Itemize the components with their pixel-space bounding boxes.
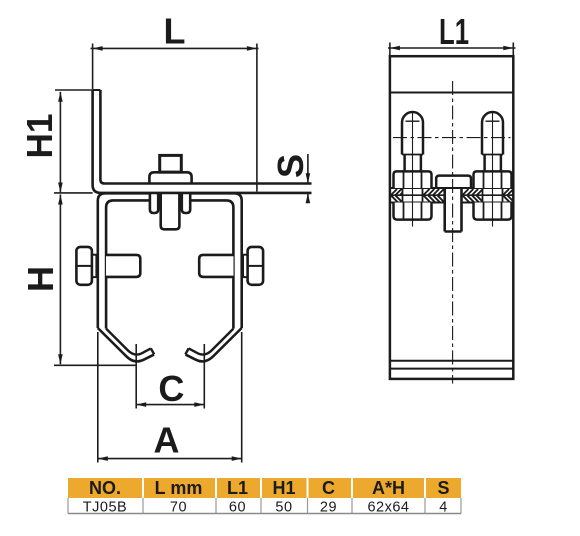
right upper nut [474, 171, 512, 188]
dimension L1 right extension [512, 43, 514, 56]
track bar top line [390, 187, 513, 189]
L-bracket plate top line [100, 90, 311, 184]
horizontal centerline through studs [393, 137, 511, 139]
left upper nut facets [404, 172, 422, 188]
dimension L1 left extension [389, 43, 391, 56]
svg-text:S: S [270, 154, 311, 178]
hatch segment between center shaft and right bolt [463, 189, 483, 203]
bolt hole edges in bar [403, 188, 503, 203]
svg-text:H: H [20, 266, 61, 292]
left slot rectangle [106, 255, 140, 277]
top bolt lower left ear [150, 193, 158, 213]
center bolt (side view) [436, 176, 471, 232]
right stud narrow section [485, 155, 501, 172]
right stud (side view) [474, 112, 512, 220]
bracket right hook tip cap [185, 348, 188, 354]
dimension C line [136, 404, 204, 406]
side view body rectangle [390, 56, 513, 379]
right bolt centerline [492, 112, 494, 227]
side view lower horizontal line 2 [390, 368, 513, 370]
left stud step line [402, 154, 423, 156]
dimension C left extension [135, 344, 137, 409]
right stud dome and sides [482, 112, 503, 155]
svg-text:L: L [164, 11, 186, 52]
center bolt shaft interior mask [446, 189, 461, 231]
svg-text:TJ05B: TJ05B [83, 500, 127, 516]
table data text [83, 500, 448, 516]
table header dividers [143, 478, 425, 498]
bracket right hook inner [189, 329, 234, 355]
left side bolt head mid line [76, 265, 92, 267]
right bolt hole edges [483, 188, 503, 203]
svg-text:L mm: L mm [155, 478, 203, 498]
track bar mid line [390, 194, 513, 196]
dimension S upper line [307, 154, 309, 183]
dimension L1 [388, 43, 516, 56]
right side bolt head mid line [248, 265, 264, 267]
left side bolt washer [92, 255, 97, 277]
track bar bottom line [390, 202, 513, 204]
left lower nut facets [404, 203, 422, 220]
right slot rectangle [199, 255, 233, 277]
dimension A line [98, 458, 242, 460]
arrow L1 right [503, 46, 513, 51]
dimension H1 bottom extension (plate bottom extended) [54, 192, 93, 194]
right lower nut facets [484, 203, 502, 220]
arrow S up [306, 193, 311, 203]
flange top cap [93, 89, 101, 91]
top bolt square head [160, 155, 182, 172]
top bolt lower shaft [161, 193, 180, 229]
side view lower horizontal line 1 [390, 360, 513, 362]
dimension L line [91, 47, 259, 49]
dimension C right extension [203, 344, 205, 409]
arrow H1 down [58, 183, 63, 193]
dimension H1 top extension [55, 89, 93, 91]
arrow L1 left [390, 46, 400, 51]
dimension L1 line [388, 47, 516, 49]
arrow H up [58, 195, 63, 205]
bracket left hook outer [98, 328, 154, 361]
right stud step line [482, 154, 503, 156]
bracket inner profile [106, 200, 233, 328]
left stud (side view) [394, 112, 432, 220]
svg-text:L1: L1 [439, 11, 469, 52]
bracket left hook tip cap [151, 348, 154, 354]
dimension H1 line [59, 92, 61, 193]
left lower nut [394, 203, 432, 220]
svg-text:29: 29 [320, 500, 337, 516]
top bolt lower right ear [182, 193, 190, 213]
svg-text:4: 4 [439, 500, 448, 516]
arrow A left [98, 456, 108, 461]
svg-text:62x64: 62x64 [367, 500, 409, 516]
hatch segment left of left bolt [391, 189, 403, 203]
dimension H bottom extension [54, 364, 137, 366]
dimension A right extension [241, 332, 243, 463]
dimension S lower line [307, 193, 309, 202]
svg-text:C: C [158, 368, 184, 409]
dimension A left extension [97, 332, 99, 463]
dimension H line [59, 195, 61, 365]
arrow H1 up [58, 92, 63, 102]
dimension L right extension [256, 44, 258, 192]
arrow L left [93, 46, 103, 51]
hatch segment between left bolt and center shaft [424, 189, 445, 203]
left stud cross tick [406, 120, 420, 122]
left side bolt head [76, 247, 92, 285]
center bolt head bottom line [436, 187, 471, 189]
svg-text:L1: L1 [227, 478, 248, 498]
arrow C right [194, 402, 204, 407]
arrow C left [136, 402, 146, 407]
right side bolt head [248, 247, 264, 285]
svg-text:H1: H1 [272, 478, 295, 498]
svg-text:60: 60 [229, 500, 246, 516]
arrow L right [247, 46, 257, 51]
center bolt shaft sides [445, 188, 462, 232]
right side bolt washer [243, 255, 248, 277]
dimension L left extension [92, 44, 94, 90]
svg-text:A*H: A*H [372, 478, 405, 498]
table header text [89, 478, 450, 498]
center bolt shaft bottom [445, 230, 462, 233]
left bolt hole edges [403, 188, 423, 203]
svg-text:NO.: NO. [89, 478, 121, 498]
arrow H down [58, 354, 63, 364]
bracket right hook outer [186, 328, 242, 361]
svg-text:H1: H1 [19, 114, 60, 159]
center bolt head [436, 176, 471, 188]
arrow S down [306, 173, 311, 183]
hatch segment right of right bolt [503, 189, 513, 203]
left stud narrow section [405, 155, 421, 172]
svg-text:C: C [322, 478, 335, 498]
svg-text:50: 50 [275, 500, 292, 516]
svg-text:A: A [154, 419, 180, 460]
hatch strokes in track bar [391, 189, 513, 203]
top bolt nut above plate [149, 172, 191, 184]
left upper nut [394, 171, 432, 188]
left bolt centerline [412, 112, 414, 227]
svg-text:S: S [437, 478, 449, 498]
table header background [68, 478, 461, 498]
svg-text:70: 70 [170, 500, 187, 516]
main vertical centerline [452, 81, 454, 384]
bracket left hook inner [106, 329, 151, 355]
left stud dome and sides [402, 112, 423, 155]
table data row borders [68, 498, 461, 514]
right stud cross tick [486, 120, 500, 122]
right lower nut [474, 203, 512, 220]
arrow A right [232, 456, 242, 461]
bracket outer profile [98, 193, 242, 328]
side view upper horizontal line [390, 92, 513, 94]
L-bracket flange and plate bottom line [93, 90, 312, 193]
right upper nut facets [484, 172, 502, 188]
